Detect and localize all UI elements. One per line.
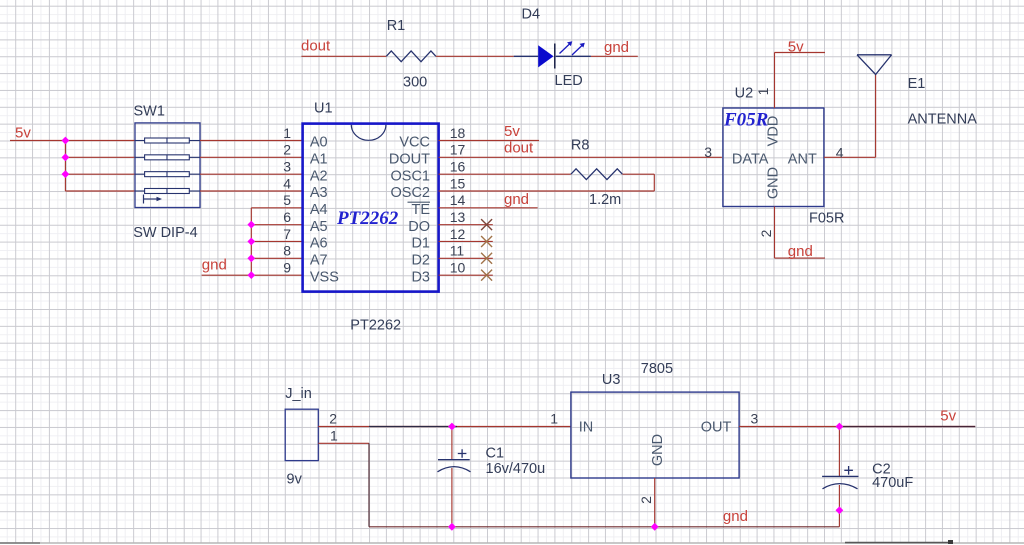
wire pin14 gnd [439,207,538,209]
wire gnd rail [369,526,839,528]
U1 right pin numbers 18-10 [450,125,466,276]
U1 left pin names [310,135,339,286]
wire D4 to gnd [591,55,638,57]
U2 pin1 wire VDD [774,53,776,109]
wire dout to R1 [301,55,386,57]
svg-text:GND: GND [766,167,782,199]
svg-text:3: 3 [751,411,759,427]
junction dot C2 lower [836,506,844,514]
wire gnd bus vertical [250,208,252,275]
svg-text:GND: GND [650,434,666,466]
svg-text:18: 18 [450,125,466,141]
svg-text:7: 7 [283,226,291,242]
wire gnd bus to U1 pin8 [251,257,302,259]
svg-text:E1: E1 [908,76,926,92]
svg-text:gnd: gnd [723,508,748,525]
wire gnd bus to U1 pin5 [251,207,302,209]
svg-text:PT2262: PT2262 [350,318,401,334]
U2 pin2 wire GND [774,207,776,259]
switch SW1 SW DIP-4 [133,103,200,241]
svg-text:IN: IN [579,420,594,436]
svg-text:2: 2 [329,411,337,427]
svg-text:D2: D2 [411,253,430,269]
wire pin17 dout to U2 [439,156,722,158]
wire J_in pin1 [318,442,369,444]
svg-text:DOUT: DOUT [389,152,430,168]
svg-text:14: 14 [450,192,466,208]
svg-text:J_in: J_in [285,386,312,402]
svg-text:1: 1 [550,411,558,427]
wire gnd bus to U1 pin9 [251,274,302,276]
IC U1 PT2262 body [303,124,439,292]
wire gnd bus to U1 pin7 [251,240,302,242]
U2 pin4 wire ANT [824,156,876,158]
wire SW1 to U1 pin3 [200,173,303,175]
svg-text:U3: U3 [602,372,621,388]
svg-text:D3: D3 [411,269,430,285]
svg-text:5v: 5v [940,408,956,425]
svg-text:1: 1 [283,125,291,141]
svg-text:DO: DO [408,219,430,235]
wire pin12 stub [439,240,493,242]
junction dots left bus [62,137,70,178]
wire bus vertical left [64,141,66,191]
connector J_in [285,386,318,488]
module U2 F05R body [723,108,824,207]
wire R8 right elbow [622,173,654,175]
antenna E1 symbol [857,55,892,75]
wire pin11 stub [439,257,493,259]
svg-text:6: 6 [283,209,291,225]
svg-text:5v: 5v [504,123,520,140]
wire dark segment row IN [369,426,457,428]
svg-text:16: 16 [450,159,466,175]
resistor R8 [571,137,623,208]
svg-text:11: 11 [450,243,465,259]
svg-text:2: 2 [638,496,654,504]
svg-text:5: 5 [283,192,291,208]
svg-text:LED: LED [555,73,583,89]
wire pin16 OSC1 [439,173,571,175]
LED D4 [514,7,591,90]
svg-text:R8: R8 [571,137,590,153]
no-connect X pin10 [481,270,492,281]
svg-text:A2: A2 [310,168,328,184]
svg-text:R1: R1 [387,18,406,34]
svg-text:SW DIP-4: SW DIP-4 [133,225,197,241]
svg-text:2: 2 [758,229,774,237]
no-connect X pin11 [481,253,492,264]
svg-text:U2: U2 [735,86,754,102]
svg-text:VSS: VSS [310,269,339,285]
svg-text:ANT: ANT [788,152,817,168]
wire gnd stub row9 [202,274,252,276]
wire vertical to rail [368,443,370,527]
wire R1 to D4 [436,55,514,57]
wire pin13 stub [439,224,493,226]
svg-text:A3: A3 [310,185,328,201]
svg-text:16v/470u: 16v/470u [486,461,546,477]
svg-text:A7: A7 [310,253,328,269]
wire pin10 stub [439,274,493,276]
resistor R1 [386,18,436,91]
wire SW1 to U1 pin4 [200,190,303,192]
svg-text:2: 2 [283,142,291,158]
svg-text:OSC2: OSC2 [391,185,431,201]
svg-text:C1: C1 [486,446,505,462]
svg-text:F05R: F05R [809,211,844,227]
svg-text:470uF: 470uF [872,475,913,491]
U1 left pin numbers 1-9 [283,125,291,276]
svg-text:A4: A4 [310,202,328,218]
svg-text:gnd: gnd [202,256,227,273]
wire row4 left [65,190,135,192]
svg-text:9v: 9v [287,472,303,488]
junction dot C2 top [836,423,844,431]
wire U3 OUT to 5v [739,426,975,428]
wire SW1 to U1 pin2 [200,156,303,158]
U3 pin2 wire to rail [654,478,656,527]
svg-text:A1: A1 [310,152,328,168]
svg-text:F05R: F05R [723,110,768,131]
svg-text:gnd: gnd [504,191,529,208]
svg-text:TE: TE [411,202,430,218]
svg-text:dout: dout [504,140,534,157]
capacitor C2 [822,427,913,527]
svg-text:A5: A5 [310,219,328,235]
svg-text:300: 300 [403,75,427,91]
junction dots gnd bus [247,221,255,279]
svg-text:D4: D4 [522,7,541,23]
svg-text:12: 12 [450,226,466,242]
svg-text:PT2262: PT2262 [336,208,399,229]
wire row3 left [65,173,135,175]
svg-text:15: 15 [450,175,466,191]
regulator U3 7805 body [571,392,739,478]
svg-text:1.2m: 1.2m [589,192,621,208]
svg-text:10: 10 [450,260,466,276]
wire dark segment OUT [839,426,975,428]
svg-text:17: 17 [450,142,466,158]
junction dot C1 bottom [448,523,456,531]
svg-text:5v: 5v [788,39,804,56]
svg-text:7805: 7805 [641,361,673,377]
svg-text:dout: dout [301,38,331,55]
svg-text:SW1: SW1 [134,103,165,119]
wire 5v row1 [10,140,135,142]
junction dot U3 gnd [651,523,659,531]
wire SW1 to U1 pin1 [200,140,303,142]
wire J_in pin2 to U3 IN [318,426,571,428]
svg-text:gnd: gnd [788,243,813,260]
svg-text:4: 4 [283,175,291,191]
svg-text:1: 1 [755,87,771,95]
net stub gnd U2 [775,257,826,259]
svg-text:OUT: OUT [701,420,732,436]
svg-text:U1: U1 [314,101,333,117]
wire pin18 5v [439,140,539,142]
svg-text:ANTENNA: ANTENNA [908,112,978,128]
wire antenna vertical [875,75,877,158]
svg-text:VDD: VDD [766,116,782,147]
U1 right pin names [389,135,430,286]
wire gnd bus to U1 pin6 [251,224,302,226]
svg-text:13: 13 [450,209,466,225]
junction dot C1 top [448,423,456,431]
svg-text:5v: 5v [15,125,31,142]
svg-text:3: 3 [704,144,712,160]
capacitor C1 [438,427,546,527]
svg-text:4: 4 [836,145,844,161]
wire pin15 OSC2 [439,190,655,192]
svg-text:OSC1: OSC1 [391,168,431,184]
no-connect X pin12 [481,236,492,247]
svg-text:gnd: gnd [604,39,629,56]
window bottom border [0,542,1024,544]
svg-text:A0: A0 [310,135,328,151]
wire row2 left [65,156,135,158]
svg-text:VCC: VCC [399,135,430,151]
svg-text:1: 1 [330,428,338,444]
svg-text:8: 8 [283,243,291,259]
no-connect X pin13 [481,219,492,230]
svg-text:9: 9 [283,260,291,276]
svg-text:A6: A6 [310,236,328,252]
svg-text:3: 3 [283,159,291,175]
net stub 5v U2 [775,52,826,54]
svg-text:DATA: DATA [732,152,769,168]
svg-text:D1: D1 [411,236,430,252]
